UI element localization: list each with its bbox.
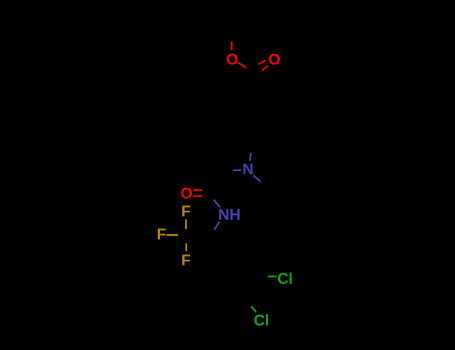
wire: bond ring N up to ring C (blue half) [249, 153, 252, 161]
wire: bond ring N left to ring C (blue half) [233, 169, 242, 171]
node F1: fluorine label top [182, 206, 190, 217]
node N1: ring nitrogen label [243, 164, 252, 175]
node F3: fluorine label bottom [182, 255, 190, 266]
node F2: fluorine label left [158, 229, 166, 240]
wire: ester C=O double bond upper line (red half) [258, 60, 265, 64]
wire: bond ester O to carbonyl C (red half) [238, 62, 247, 68]
wire: bond F3 up to CF3 C (gold half) [185, 244, 187, 252]
node Cl2: chlorine label lower [254, 314, 268, 325]
wire: amide C=O double bond lower line (red half) [193, 195, 202, 197]
wire: bond ethyl CH2 to ester O (red half) [231, 42, 233, 50]
wire: bond amide C to NH (blue half) [214, 200, 220, 208]
wire: bond aryl C to Cl1 (green half) [268, 275, 277, 277]
wire: bond F1 down to CF3 C (gold half) [185, 220, 187, 230]
node O1: ester oxygen label [227, 54, 238, 65]
node Cl1: chlorine label upper [278, 273, 292, 284]
node O2: ester carbonyl oxygen label [269, 54, 280, 65]
node N2: amide NH label [219, 209, 239, 220]
wire: amide C=O double bond upper line (red half) [193, 189, 202, 191]
wire: ester C=O double bond lower line (red half) [262, 66, 268, 71]
wire: bond ring N down-right to C (blue half) [253, 176, 260, 182]
wire: bond F2 right to CF3 C (gold half) [167, 234, 179, 236]
node O3: amide carbonyl oxygen label [181, 188, 192, 199]
wire: bond NH to CH (blue half) [214, 221, 219, 229]
wire: bond aryl C to Cl2 (green half) [251, 306, 256, 312]
